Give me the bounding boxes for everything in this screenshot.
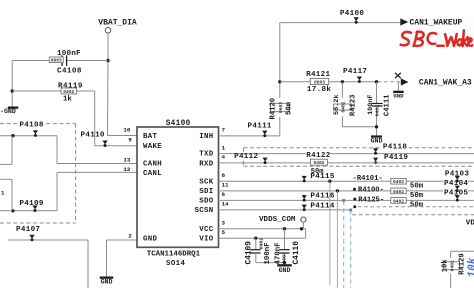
svg-text:10k: 10k bbox=[441, 259, 449, 273]
svg-text:13: 13 bbox=[123, 156, 131, 163]
svg-text:50m: 50m bbox=[286, 101, 294, 115]
svg-text:R4129: R4129 bbox=[458, 253, 466, 275]
svg-text:TXD: TXD bbox=[199, 151, 213, 159]
svg-text:10k: 10k bbox=[467, 257, 474, 277]
svg-text:TCAN1146DRQ1: TCAN1146DRQ1 bbox=[147, 250, 201, 258]
svg-text:GND: GND bbox=[279, 267, 291, 274]
svg-text:CANH: CANH bbox=[143, 160, 162, 168]
svg-text:SCSN: SCSN bbox=[195, 207, 214, 215]
svg-text:SDI: SDI bbox=[199, 188, 213, 196]
svg-text:1: 1 bbox=[1, 189, 5, 196]
svg-text:-GND: -GND bbox=[0, 108, 16, 115]
svg-text:8: 8 bbox=[222, 172, 226, 179]
svg-text:14: 14 bbox=[222, 201, 230, 208]
svg-text:P4116: P4116 bbox=[310, 193, 334, 201]
svg-text:9: 9 bbox=[128, 137, 132, 144]
svg-text:0402: 0402 bbox=[313, 160, 324, 166]
svg-text:7: 7 bbox=[222, 127, 226, 134]
svg-text:0603: 0603 bbox=[278, 102, 284, 113]
svg-text:VCC: VCC bbox=[199, 226, 213, 234]
svg-text:R4125-: R4125- bbox=[358, 196, 384, 204]
svg-text:0402: 0402 bbox=[341, 101, 347, 112]
svg-text:C4111: C4111 bbox=[383, 94, 391, 116]
svg-text:0402: 0402 bbox=[374, 105, 380, 117]
svg-text:P4110: P4110 bbox=[81, 131, 105, 139]
svg-text:P4107: P4107 bbox=[16, 226, 40, 234]
svg-text:470nF: 470nF bbox=[275, 242, 283, 264]
svg-text:4: 4 bbox=[222, 154, 226, 161]
svg-text:3: 3 bbox=[222, 220, 226, 227]
svg-text:VIO: VIO bbox=[199, 235, 213, 243]
svg-text:S4100: S4100 bbox=[166, 120, 191, 128]
svg-text:P4119: P4119 bbox=[384, 154, 408, 162]
svg-text:P4115: P4115 bbox=[310, 173, 334, 181]
svg-text:C4110: C4110 bbox=[293, 241, 301, 265]
svg-text:R4120: R4120 bbox=[270, 98, 278, 120]
svg-text:P4114: P4114 bbox=[310, 202, 334, 210]
svg-text:R4123: R4123 bbox=[349, 95, 357, 117]
svg-text:100nF: 100nF bbox=[367, 94, 375, 114]
svg-text:1k: 1k bbox=[63, 96, 72, 104]
svg-text:C4108: C4108 bbox=[57, 67, 82, 75]
svg-text:0603: 0603 bbox=[282, 252, 288, 264]
svg-text:CAN1_WAKEUP: CAN1_WAKEUP bbox=[410, 18, 463, 27]
svg-text:0402: 0402 bbox=[393, 198, 404, 204]
svg-text:RXD: RXD bbox=[199, 160, 213, 168]
svg-text:2: 2 bbox=[128, 233, 132, 240]
svg-text:VBAT_DIA: VBAT_DIA bbox=[98, 19, 137, 28]
svg-text:INH: INH bbox=[199, 133, 213, 141]
svg-text:WAKE: WAKE bbox=[143, 143, 162, 151]
svg-text:C4109: C4109 bbox=[246, 241, 254, 265]
svg-text:VDDS_COM: VDDS_COM bbox=[259, 216, 296, 224]
svg-text:P4109: P4109 bbox=[19, 200, 43, 208]
svg-text:50m: 50m bbox=[410, 201, 424, 209]
svg-text:0603: 0603 bbox=[51, 58, 62, 64]
svg-text:100nF: 100nF bbox=[264, 242, 272, 264]
svg-text:0603: 0603 bbox=[314, 79, 325, 85]
svg-text:GND: GND bbox=[393, 93, 404, 100]
svg-text:50m: 50m bbox=[410, 182, 424, 190]
svg-text:0402: 0402 bbox=[449, 260, 455, 271]
svg-text:6: 6 bbox=[222, 191, 226, 198]
svg-text:P4117: P4117 bbox=[343, 68, 367, 76]
svg-text:-R4101-: -R4101- bbox=[353, 175, 383, 183]
svg-text:1: 1 bbox=[222, 144, 226, 151]
svg-text:GND: GND bbox=[101, 278, 113, 285]
svg-text:BAT: BAT bbox=[143, 133, 157, 141]
svg-text:5: 5 bbox=[222, 229, 226, 236]
svg-text:17.8k: 17.8k bbox=[307, 86, 331, 94]
svg-text:P4100: P4100 bbox=[340, 10, 364, 18]
svg-text:56.2k: 56.2k bbox=[333, 95, 341, 115]
svg-text:CAN1_WAK_A3: CAN1_WAK_A3 bbox=[419, 79, 472, 88]
svg-text:0402: 0402 bbox=[393, 189, 404, 195]
svg-text:CANL: CANL bbox=[143, 170, 162, 178]
svg-text:GND: GND bbox=[371, 137, 383, 144]
svg-text:50m: 50m bbox=[410, 192, 424, 200]
svg-text:SDO: SDO bbox=[199, 197, 213, 205]
svg-text:R4100-: R4100- bbox=[358, 187, 384, 195]
svg-text:P4111: P4111 bbox=[248, 123, 272, 131]
svg-text:12: 12 bbox=[123, 166, 131, 173]
svg-text:0402: 0402 bbox=[393, 179, 404, 185]
svg-text:P4118: P4118 bbox=[383, 143, 407, 151]
svg-text:11: 11 bbox=[222, 182, 230, 189]
svg-text:GND: GND bbox=[143, 235, 157, 243]
svg-text:SO14: SO14 bbox=[166, 260, 186, 268]
svg-text:0402: 0402 bbox=[63, 89, 74, 95]
svg-text:P4108: P4108 bbox=[19, 121, 43, 129]
svg-text:R4121: R4121 bbox=[306, 71, 330, 79]
svg-text:VD: VD bbox=[466, 219, 474, 227]
svg-text:10: 10 bbox=[123, 127, 131, 134]
svg-text:P4112: P4112 bbox=[234, 153, 258, 161]
svg-text:SCK: SCK bbox=[199, 178, 213, 186]
